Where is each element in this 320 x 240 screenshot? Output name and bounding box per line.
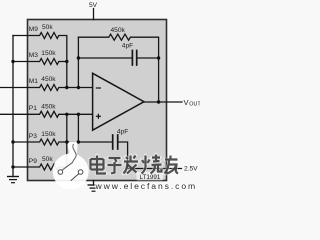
- svg-text:4pF: 4pF: [122, 43, 133, 50]
- svg-text:OUT: OUT: [189, 101, 200, 107]
- svg-text:450k: 450k: [111, 27, 126, 34]
- svg-text:50k: 50k: [42, 156, 53, 163]
- svg-text:450k: 450k: [41, 103, 56, 110]
- svg-text:M1: M1: [29, 78, 38, 85]
- svg-text:4pF: 4pF: [117, 128, 128, 135]
- svg-text:150k: 150k: [41, 50, 56, 57]
- svg-text:50k: 50k: [42, 24, 53, 31]
- svg-text:450k: 450k: [41, 76, 56, 83]
- svg-text:P1: P1: [29, 105, 37, 112]
- svg-text:P9: P9: [29, 158, 37, 165]
- svg-text:M3: M3: [29, 52, 38, 59]
- svg-text:M9: M9: [29, 26, 38, 33]
- svg-text:150k: 150k: [41, 131, 56, 138]
- svg-text:2.5V: 2.5V: [184, 165, 198, 172]
- svg-text:5V: 5V: [89, 2, 98, 9]
- svg-text:www.elecfans.com: www.elecfans.com: [95, 181, 198, 191]
- svg-text:P3: P3: [29, 133, 37, 140]
